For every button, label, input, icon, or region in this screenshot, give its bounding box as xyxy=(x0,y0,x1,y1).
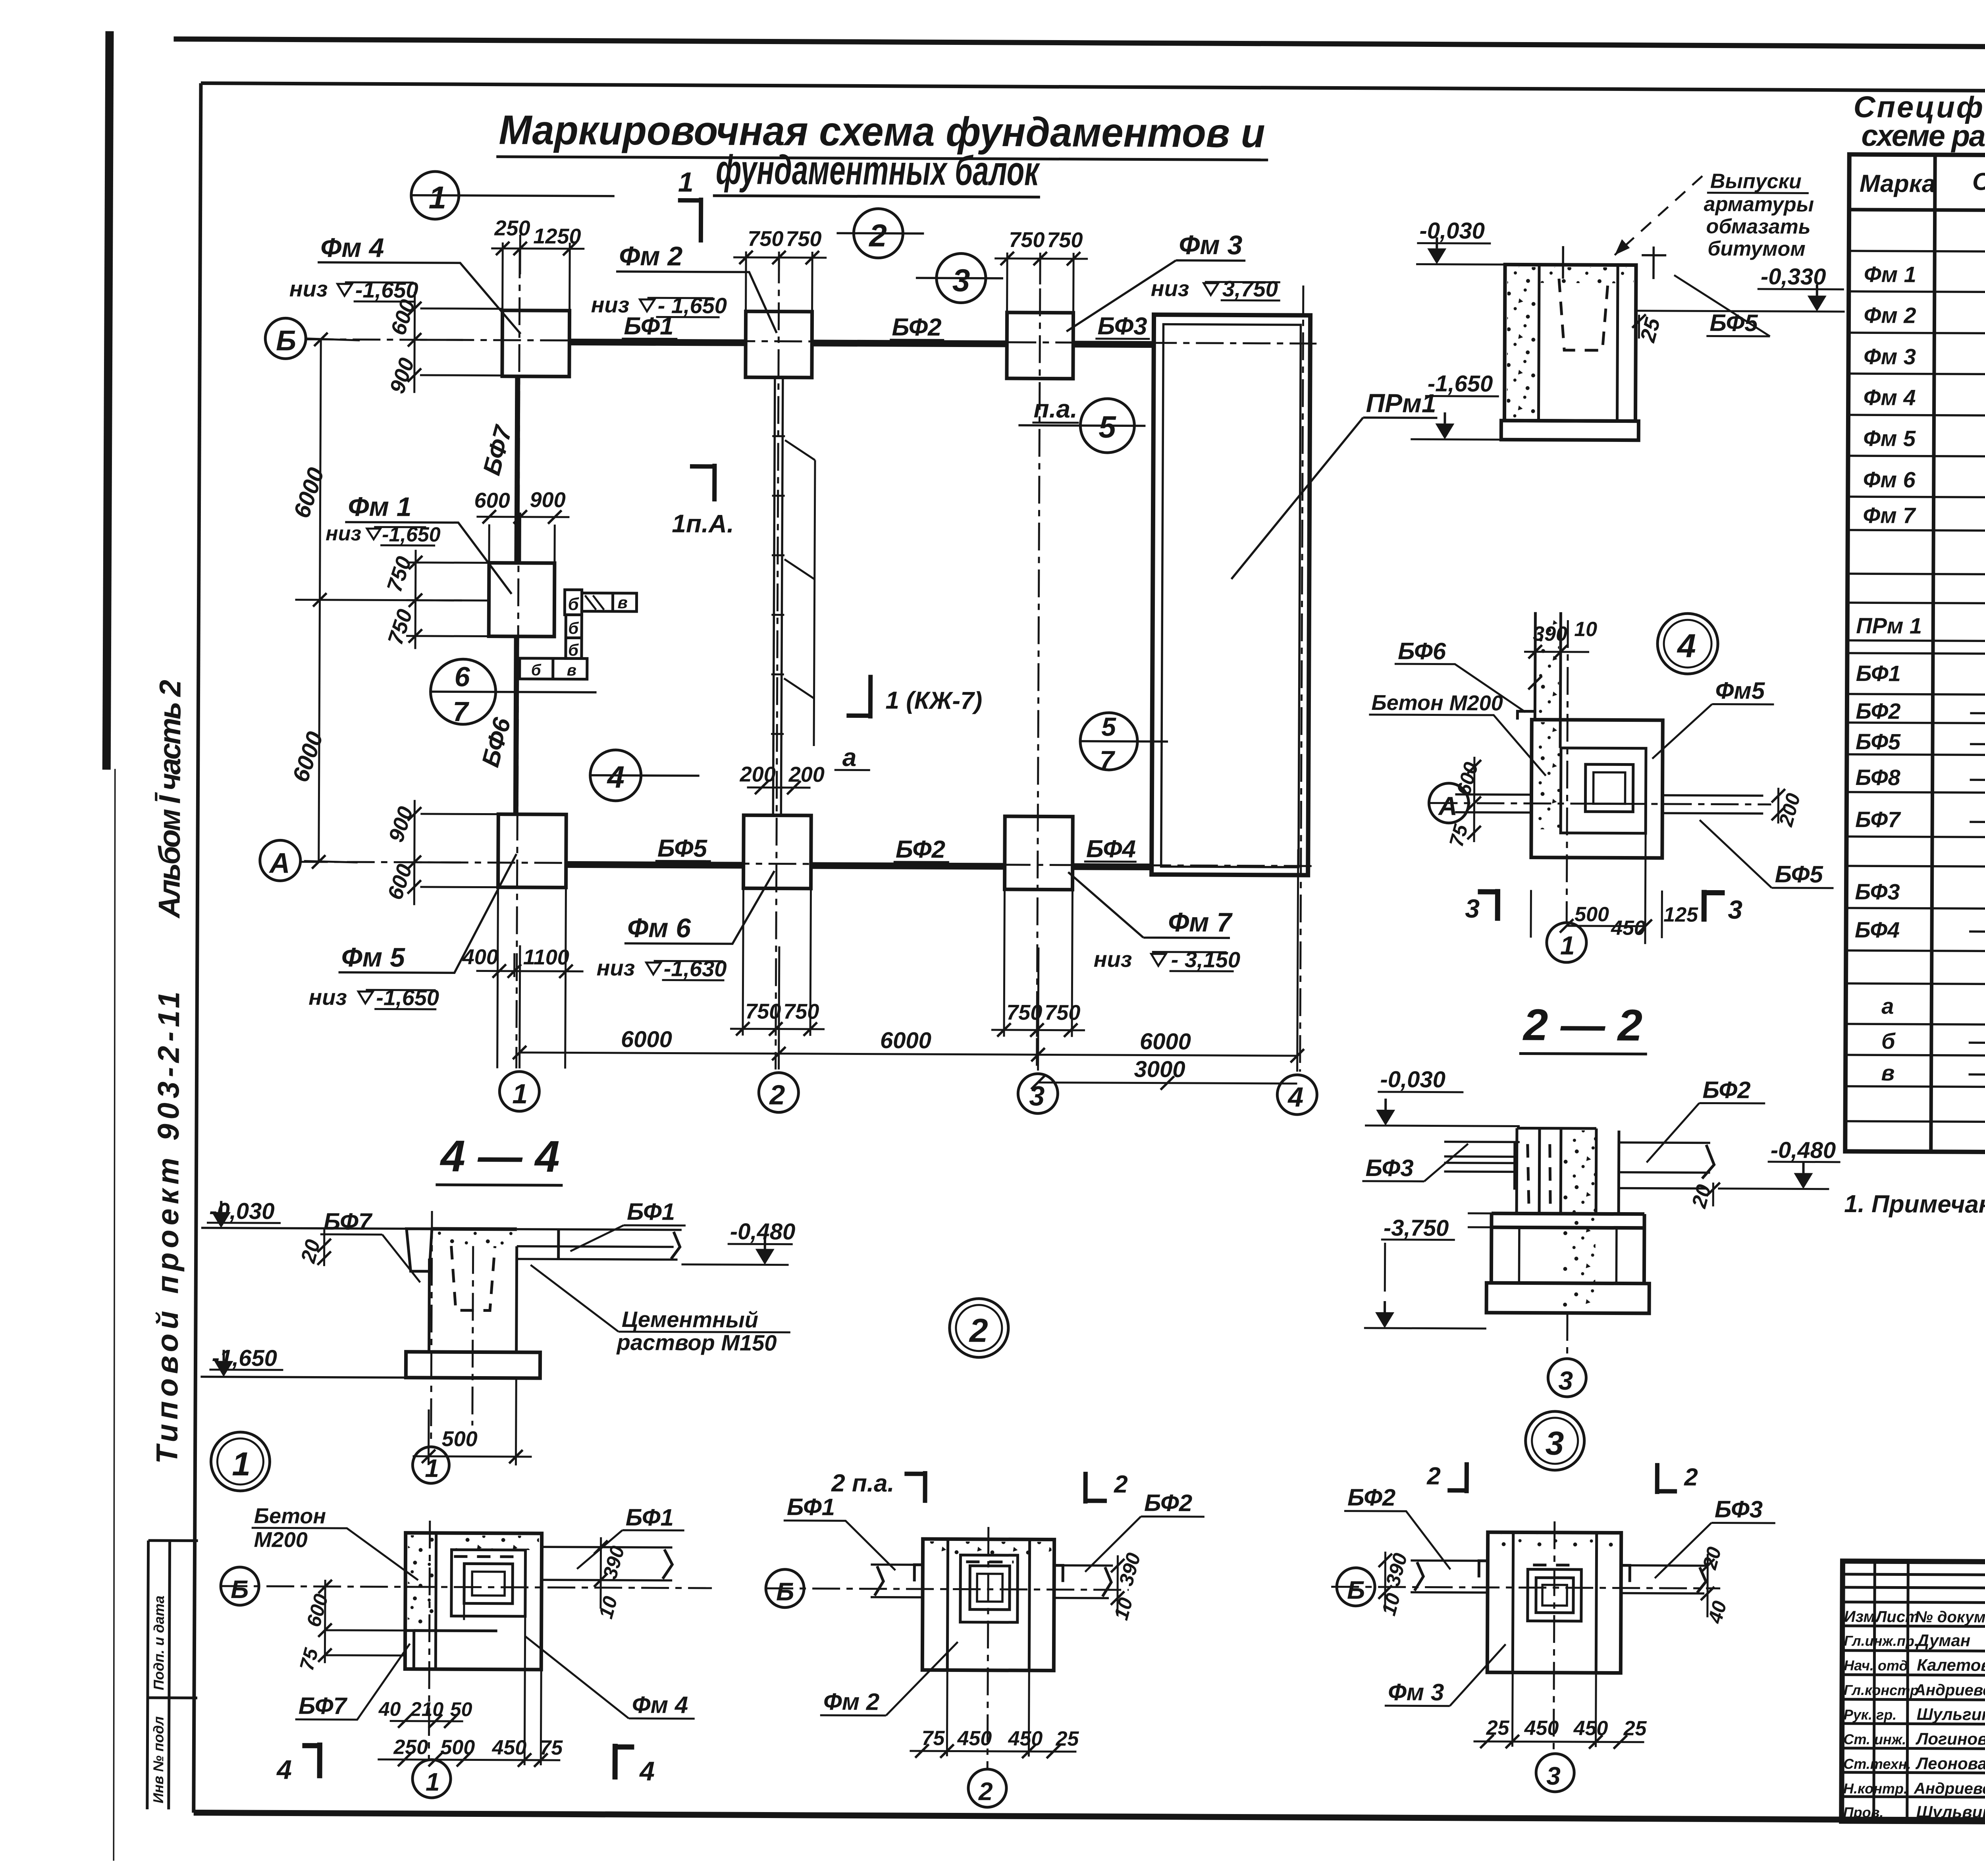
svg-text:3,750: 3,750 xyxy=(1222,276,1278,301)
svg-text:7: 7 xyxy=(453,696,469,727)
svg-text:500: 500 xyxy=(1575,903,1609,926)
svg-text:450: 450 xyxy=(1008,1727,1043,1750)
label БФ3 (2-2) xyxy=(1362,1143,1468,1182)
dim 3000 xyxy=(1031,1056,1297,1090)
dims 40 210 50 (detail 1) xyxy=(378,1698,472,1728)
svg-text:низ: низ xyxy=(289,276,328,301)
svg-text:250: 250 xyxy=(393,1736,428,1759)
svg-text:-0,480: -0,480 xyxy=(1771,1137,1836,1163)
svg-text:Фм 2: Фм 2 xyxy=(823,1688,880,1715)
svg-text:500: 500 xyxy=(440,1736,475,1759)
svg-text:БФ1: БФ1 xyxy=(626,1504,674,1531)
svg-text:-0,030: -0,030 xyxy=(209,1198,275,1224)
svg-text:Андриевская: Андриевская xyxy=(1914,1681,1985,1699)
svg-text:Фм 4: Фм 4 xyxy=(1864,385,1916,410)
svg-text:-1,630: -1,630 xyxy=(664,956,727,981)
detail 4 axis 1 xyxy=(1547,620,1588,962)
section flag 2 left (detail 3) xyxy=(1426,1462,1467,1493)
bottom dim line 6000x3 xyxy=(513,846,1305,1072)
title block grid xyxy=(1842,1561,1985,1824)
svg-text:а: а xyxy=(842,743,857,771)
svg-text:Фм 5: Фм 5 xyxy=(341,942,406,973)
label БФ5 (plan bottom) xyxy=(655,835,711,862)
table rows: foundations xyxy=(1863,258,1985,579)
label БФ7 (detail 1) xyxy=(295,1643,410,1720)
svg-text:2: 2 xyxy=(978,1777,993,1806)
svg-text:Лист: Лист xyxy=(1875,1608,1919,1625)
label низ -1,650 (Фм4) xyxy=(289,276,418,302)
label Фм7 xyxy=(1068,872,1233,938)
svg-text:Б: Б xyxy=(776,1577,794,1606)
svg-text:4: 4 xyxy=(1287,1082,1303,1112)
dim 750 750 (Фм3) xyxy=(994,228,1088,312)
svg-text:1: 1 xyxy=(1560,931,1575,960)
label Фм4 xyxy=(317,233,521,334)
svg-text:БФ1: БФ1 xyxy=(624,312,673,340)
beam БФ2 xyxy=(812,343,1007,344)
dim 25 xyxy=(1632,314,1665,345)
section body Фм1 xyxy=(1501,246,1639,440)
label БФ3 xyxy=(1095,312,1150,340)
svg-text:- 3,150: - 3,150 xyxy=(1171,947,1241,972)
svg-text:БФ8: БФ8 xyxy=(1856,765,1901,790)
svg-text:низ: низ xyxy=(597,955,635,980)
svg-text:БФ3: БФ3 xyxy=(1365,1155,1413,1182)
grid circle 2 top xyxy=(836,208,924,258)
svg-text:6000: 6000 xyxy=(1140,1028,1191,1055)
svg-text:1: 1 xyxy=(678,167,694,198)
svg-text:ПРм 1: ПРм 1 xyxy=(1856,613,1922,638)
svg-text:БФ1: БФ1 xyxy=(627,1198,675,1225)
svg-text:БФ1: БФ1 xyxy=(787,1494,835,1521)
svg-text:Шульгина: Шульгина xyxy=(1917,1705,1985,1724)
svg-text:Андриевская: Андриевская xyxy=(1914,1780,1985,1798)
svg-text:6: 6 xyxy=(455,661,470,692)
svg-text:4: 4 xyxy=(1677,627,1696,664)
svg-text:-3,750: -3,750 xyxy=(1384,1215,1449,1241)
svg-text:Б: Б xyxy=(231,1575,249,1604)
label БФ1 (4-4) xyxy=(570,1198,686,1251)
svg-text:Фм 1: Фм 1 xyxy=(348,492,411,522)
detail 4 body xyxy=(1455,612,1764,858)
dim 20 40 (detail 3 right) xyxy=(1698,1544,1731,1626)
svg-text:Рук. гр.: Рук. гр. xyxy=(1844,1706,1897,1723)
label БФ7 (4-4) xyxy=(320,1208,420,1282)
svg-text:б: б xyxy=(531,661,542,679)
margin small table xyxy=(147,1541,198,1810)
label БФ6 (rotated) xyxy=(477,715,516,770)
svg-text:б: б xyxy=(568,640,579,659)
table rows: pit xyxy=(1856,611,1985,641)
axis 3 (vertical) xyxy=(1037,288,1040,1070)
svg-text:Инв № подл: Инв № подл xyxy=(150,1716,167,1803)
bottom grid circle 2 xyxy=(759,1072,798,1112)
grid circle Б xyxy=(265,318,306,359)
label а with leader xyxy=(834,743,870,771)
section 2-2 body xyxy=(1443,1128,1714,1314)
axis А (horizontal) xyxy=(300,862,1314,866)
label БФ6 (detail 4) xyxy=(1394,638,1526,712)
svg-text:раствор М150: раствор М150 xyxy=(616,1330,777,1355)
axis 4 (vertical) xyxy=(1300,285,1303,1072)
label БФ2 (plan bottom) xyxy=(894,836,949,864)
svg-text:Фм5: Фм5 xyxy=(1715,677,1765,704)
label БФ1 (detail 2) xyxy=(783,1494,896,1570)
level -0.480 (2-2) xyxy=(1718,1137,1840,1189)
label низ -1,650 (Фм5) xyxy=(308,985,439,1010)
level line -1,650 xyxy=(1411,370,1501,440)
svg-text:низ: низ xyxy=(308,985,347,1010)
label Цементный раствор М150 xyxy=(530,1265,791,1355)
svg-text:Калетов: Калетов xyxy=(1917,1656,1985,1675)
dim 600/900 left of Фм4 xyxy=(385,291,503,397)
beam БФ6 (vertical) xyxy=(516,636,516,814)
svg-text:БФ2: БФ2 xyxy=(1144,1489,1192,1516)
svg-text:обмазать: обмазать xyxy=(1706,215,1810,238)
svg-text:БФ7: БФ7 xyxy=(299,1693,348,1720)
svg-text:А: А xyxy=(269,847,290,879)
svg-text:Б: Б xyxy=(1347,1576,1365,1604)
svg-text:б: б xyxy=(568,594,579,614)
svg-text:750: 750 xyxy=(1047,228,1083,252)
svg-text:Гл.констр: Гл.констр xyxy=(1844,1682,1919,1699)
svg-text:низ: низ xyxy=(326,522,361,545)
svg-text:2 п.а.: 2 п.а. xyxy=(831,1469,894,1497)
svg-text:БФ2: БФ2 xyxy=(892,314,941,341)
svg-text:БФ3: БФ3 xyxy=(1715,1496,1763,1523)
svg-text:3000: 3000 xyxy=(1134,1056,1185,1082)
svg-text:Фм 1: Фм 1 xyxy=(1864,262,1916,287)
svg-text:3: 3 xyxy=(1029,1080,1045,1111)
svg-text:750: 750 xyxy=(783,1000,819,1024)
axis Б (horizontal) xyxy=(306,339,1316,344)
svg-text:БФ4: БФ4 xyxy=(1855,917,1900,942)
svg-text:10: 10 xyxy=(1574,618,1597,641)
section 4-4 title xyxy=(436,1131,563,1185)
left dim 6000+6000 xyxy=(287,332,490,869)
svg-text:Выпуски: Выпуски xyxy=(1710,170,1802,193)
svg-text:4: 4 xyxy=(606,760,624,794)
svg-text:1: 1 xyxy=(429,180,447,215)
dim 390 10 (detail 4) xyxy=(1524,617,1598,692)
svg-text:битумом: битумом xyxy=(1707,237,1806,260)
svg-text:БФ5: БФ5 xyxy=(657,835,708,862)
dim 20 (2-2) xyxy=(1687,1182,1720,1211)
grid circle 5 (п.а.) xyxy=(1018,394,1146,453)
beam БФ7 (vertical) xyxy=(517,376,518,563)
svg-text:Ст.техн.: Ст.техн. xyxy=(1843,1756,1911,1772)
svg-text:3: 3 xyxy=(1465,894,1480,923)
beam БФ3 xyxy=(1073,341,1154,348)
grid circle А xyxy=(260,840,301,881)
label Фм3 (detail 3) xyxy=(1385,1644,1506,1706)
svg-text:2: 2 xyxy=(969,1312,988,1349)
grid circle 1 top xyxy=(411,172,615,220)
dims 25 450 450 25 (detail 3) xyxy=(1473,1672,1647,1749)
svg-text:а: а xyxy=(1881,993,1894,1018)
svg-text:БФ2: БФ2 xyxy=(1856,698,1900,723)
svg-text:200: 200 xyxy=(740,762,776,786)
section flag 2 right (detail 3) xyxy=(1657,1463,1698,1494)
svg-text:390: 390 xyxy=(1533,623,1567,646)
svg-text:125: 125 xyxy=(1663,903,1698,926)
scan edge bar xyxy=(102,31,114,769)
svg-text:-0,030: -0,030 xyxy=(1380,1066,1445,1093)
detail 3 axis 3 xyxy=(1536,1521,1575,1792)
svg-text:3: 3 xyxy=(1558,1366,1573,1395)
dim 600 900 (Фм1) xyxy=(474,488,570,563)
level -0.330 with beam БФ5 stub xyxy=(1636,247,1845,312)
axis circle 1 (4-4) xyxy=(412,1447,449,1483)
svg-text:БФ2: БФ2 xyxy=(1702,1076,1750,1103)
label низ -1,630 (Фм6) xyxy=(597,955,727,981)
level -0.480 (4-4) xyxy=(682,1219,796,1265)
svg-text:БФ3: БФ3 xyxy=(1855,879,1900,904)
label Фм2 (detail 2) xyxy=(820,1641,958,1716)
svg-text:1100: 1100 xyxy=(523,945,569,969)
svg-text:1п.А.: 1п.А. xyxy=(672,509,734,538)
svg-text:6000: 6000 xyxy=(880,1028,931,1054)
table heading xyxy=(1853,90,1985,156)
svg-text:Фм 3: Фм 3 xyxy=(1179,230,1243,260)
svg-text:А: А xyxy=(1438,791,1457,821)
dim 200 (detail 4 right) xyxy=(1771,788,1805,829)
svg-text:400: 400 xyxy=(462,945,498,969)
bottom grid circle 3 xyxy=(1018,1074,1058,1113)
svg-text:1: 1 xyxy=(425,1454,439,1483)
detail circle 3 xyxy=(1525,1411,1584,1471)
svg-text:БФ4: БФ4 xyxy=(1086,835,1136,863)
detail circle 4 xyxy=(1657,613,1718,674)
svg-text:Фм 5: Фм 5 xyxy=(1863,426,1916,451)
label БФ1 xyxy=(622,312,677,340)
label Фм3 xyxy=(1066,229,1245,332)
svg-text:БФ6: БФ6 xyxy=(1398,638,1446,665)
svg-text:-1,650: -1,650 xyxy=(212,1345,277,1371)
level -3,750 (2-2) xyxy=(1364,1215,1487,1328)
svg-text:Ст. инж.: Ст. инж. xyxy=(1843,1731,1906,1748)
beam БФ5 xyxy=(566,864,744,865)
detail 4 axis А xyxy=(1429,783,1771,824)
top border xyxy=(173,39,1985,49)
wall on axis 2 with blocks xyxy=(771,378,815,816)
svg-text:Фм 4: Фм 4 xyxy=(632,1691,688,1718)
level -0.030 (4-4) xyxy=(207,1198,281,1228)
detail 3 axis Б xyxy=(1331,1568,1720,1607)
svg-text:фундаментных балок: фундаментных балок xyxy=(716,147,1040,194)
svg-text:3: 3 xyxy=(1545,1425,1564,1462)
label низ -1,650 (Фм1) xyxy=(326,522,441,546)
dims 500 450 125 (detail 4 bottom) xyxy=(1531,833,1699,945)
svg-text:Фм 6: Фм 6 xyxy=(627,913,692,943)
svg-text:БФ7: БФ7 xyxy=(1855,807,1901,832)
signature rows xyxy=(1843,1631,1985,1822)
svg-text:Альбом Ī часть 2: Альбом Ī часть 2 xyxy=(152,680,187,919)
section flag 1 п.А. xyxy=(672,463,734,538)
svg-text:Б: Б xyxy=(276,325,296,357)
label БФ1 (detail 1) xyxy=(577,1504,684,1569)
dim 750 750 (Фм6) xyxy=(730,888,825,1036)
label БФ4 (plan bottom) xyxy=(1084,835,1137,863)
svg-text:низ: низ xyxy=(1094,947,1132,972)
svg-text:Думан: Думан xyxy=(1916,1631,1971,1650)
svg-text:2 — 2: 2 — 2 xyxy=(1522,1000,1643,1050)
svg-text:450: 450 xyxy=(1611,916,1646,939)
svg-text:900: 900 xyxy=(530,488,565,512)
revision header row xyxy=(1844,1608,1985,1627)
dim 200 200 at wall xyxy=(740,762,825,794)
svg-text:3: 3 xyxy=(1546,1762,1561,1790)
label Бетон М200 (detail 1) xyxy=(251,1504,418,1580)
section 4-4 body xyxy=(200,1210,682,1442)
table rows: blocks xyxy=(1881,989,1985,1126)
level -1.650 (4-4) xyxy=(209,1345,283,1377)
svg-text:Цементный: Цементный xyxy=(622,1307,758,1332)
svg-text:№ докум.: № докум. xyxy=(1915,1608,1985,1626)
svg-text:450: 450 xyxy=(957,1727,992,1750)
scan edge thin line xyxy=(110,769,118,1861)
detail circle 2 xyxy=(950,1298,1009,1357)
pit ПРм1 xyxy=(1152,315,1310,875)
svg-text:600: 600 xyxy=(474,488,510,512)
svg-text:2: 2 xyxy=(1426,1462,1441,1490)
foundation Фм6 xyxy=(744,815,811,889)
beam БФ1 xyxy=(569,342,746,343)
svg-text:схеме расположенной на данн: схеме расположенной на данном листе xyxy=(1861,119,1985,155)
dim 390 10 (detail 2 right) xyxy=(1110,1550,1145,1623)
grid circle 3 top xyxy=(916,253,1004,303)
svg-text:-0,030: -0,030 xyxy=(1419,218,1485,244)
detail 3 body xyxy=(1410,1532,1708,1673)
table grid xyxy=(1845,154,1985,1155)
label Фм4 (detail 1) xyxy=(525,1636,695,1719)
svg-text:6000: 6000 xyxy=(621,1026,672,1053)
label Фм2 xyxy=(616,241,777,333)
label БФ5 (detail 4) xyxy=(1700,820,1834,888)
svg-text:ПРм1: ПРм1 xyxy=(1366,388,1436,418)
svg-text:низ: низ xyxy=(1151,276,1189,301)
axis 2 (vertical) xyxy=(776,256,779,1070)
section marks 4-4 (detail 1) xyxy=(276,1742,655,1786)
dim 390 10 (detail 1 right) xyxy=(594,1537,629,1621)
label низ -3,150 (Фм7) xyxy=(1094,947,1241,972)
svg-text:Бетон М200: Бетон М200 xyxy=(1371,691,1503,715)
svg-text:3: 3 xyxy=(952,262,970,298)
bottom grid circle 4 xyxy=(1277,1075,1317,1114)
detail 2 body xyxy=(870,1539,1113,1671)
svg-text:в: в xyxy=(617,593,628,612)
foundation Фм4 xyxy=(502,310,570,377)
foundation Фм3 xyxy=(1007,312,1073,379)
svg-text:БФ3: БФ3 xyxy=(1097,312,1147,340)
svg-text:Подп. и дата: Подп. и дата xyxy=(150,1596,167,1691)
table rows: beams xyxy=(1855,657,1985,958)
svg-text:1. Примечания см. на листе: 1. Примечания см. на листе КЖ- 7. xyxy=(1844,1190,1985,1219)
grid circle 5/7 xyxy=(1080,712,1168,775)
axis circle 3 (2-2) xyxy=(1548,1313,1586,1397)
left margin vertical texts xyxy=(147,680,202,1809)
detail 1 body xyxy=(405,1533,672,1670)
label БФ2 (detail 2) xyxy=(1085,1489,1204,1572)
svg-text:2: 2 xyxy=(1114,1471,1128,1498)
axis 1 (vertical) xyxy=(516,251,520,1068)
beam БФ4 xyxy=(1073,863,1152,870)
svg-text:Фм 3: Фм 3 xyxy=(1864,344,1916,369)
label БФ2 (2-2) xyxy=(1647,1076,1765,1163)
label Фм5 (detail 4) xyxy=(1652,677,1774,759)
bottom grid circle 1 xyxy=(499,1072,539,1111)
label низ -1,650 (Фм2) xyxy=(591,292,727,318)
label ПРм1 xyxy=(1231,388,1438,580)
grid circle 4 (plan) xyxy=(590,750,700,801)
dim 400 1100 (Фм5) xyxy=(462,887,584,1068)
label низ 3,750 (Фм3) xyxy=(1151,276,1280,301)
svg-text:25: 25 xyxy=(1486,1716,1510,1739)
svg-text:4 — 4: 4 — 4 xyxy=(439,1131,560,1181)
label БФ2 (detail 3) xyxy=(1344,1484,1451,1569)
svg-text:Нач. отд: Нач. отд xyxy=(1844,1657,1908,1674)
svg-text:Пров.: Пров. xyxy=(1843,1804,1884,1820)
label Бетон М200 (detail 4) xyxy=(1369,691,1546,776)
detail circle 1 xyxy=(211,1432,270,1491)
label Фм5 xyxy=(339,853,516,973)
svg-text:Фм 7: Фм 7 xyxy=(1863,503,1916,528)
svg-text:Н.контр.: Н.контр. xyxy=(1843,1780,1908,1797)
detail 2 axis 2 xyxy=(968,1527,1008,1807)
svg-text:М200: М200 xyxy=(254,1528,307,1552)
dim 600 75 (detail 1 left) xyxy=(295,1580,405,1674)
detail 2 axis Б xyxy=(765,1569,1129,1609)
svg-text:арматуры: арматуры xyxy=(1704,193,1814,216)
detail 1 axis 1 xyxy=(412,1521,452,1798)
section marks 3-3 (detail 4) xyxy=(1465,889,1742,924)
svg-text:п.а.: п.а. xyxy=(1033,394,1077,423)
dim 900/600 left of Фм5 xyxy=(383,800,499,905)
svg-text:1: 1 xyxy=(232,1445,251,1483)
svg-text:Фм 3: Фм 3 xyxy=(1388,1679,1444,1706)
svg-text:б: б xyxy=(1881,1028,1896,1053)
section flag 1 (top) xyxy=(678,167,701,243)
table header texts xyxy=(1860,166,1985,201)
svg-text:Логинов: Логинов xyxy=(1915,1729,1985,1749)
svg-text:Фм 2: Фм 2 xyxy=(619,241,683,272)
svg-text:БФ2: БФ2 xyxy=(896,836,945,864)
svg-text:Обозначение: Обозначение xyxy=(1972,168,1985,196)
beam БФ2 bottom xyxy=(811,866,1005,866)
svg-text:2: 2 xyxy=(769,1080,785,1111)
svg-text:-1,650: -1,650 xyxy=(1428,370,1493,397)
foundation Фм5 xyxy=(498,814,567,888)
svg-text:БФ2: БФ2 xyxy=(1347,1484,1395,1511)
svg-text:БФ5: БФ5 xyxy=(1856,729,1901,754)
svg-text:-1,650: -1,650 xyxy=(376,985,439,1010)
svg-text:Фм 2: Фм 2 xyxy=(1864,303,1916,328)
svg-text:-1,650: -1,650 xyxy=(355,277,418,303)
svg-text:250: 250 xyxy=(494,216,530,240)
label БФ3 (detail 3) xyxy=(1655,1496,1775,1579)
svg-text:-0,330: -0,330 xyxy=(1761,264,1826,290)
svg-text:40: 40 xyxy=(378,1698,401,1720)
svg-text:750: 750 xyxy=(748,227,783,251)
svg-text:Изм.: Изм. xyxy=(1844,1608,1880,1625)
dim 390 10 (detail 3 left) xyxy=(1377,1551,1411,1618)
section flag 1 (КЖ-7) xyxy=(846,675,982,719)
svg-text:5: 5 xyxy=(1101,712,1116,741)
svg-text:3: 3 xyxy=(1728,895,1742,924)
label БФ7 (rotated) xyxy=(478,422,518,478)
dim 600 75 (detail 4 left) xyxy=(1445,757,1482,849)
label Фм1 xyxy=(345,492,512,594)
